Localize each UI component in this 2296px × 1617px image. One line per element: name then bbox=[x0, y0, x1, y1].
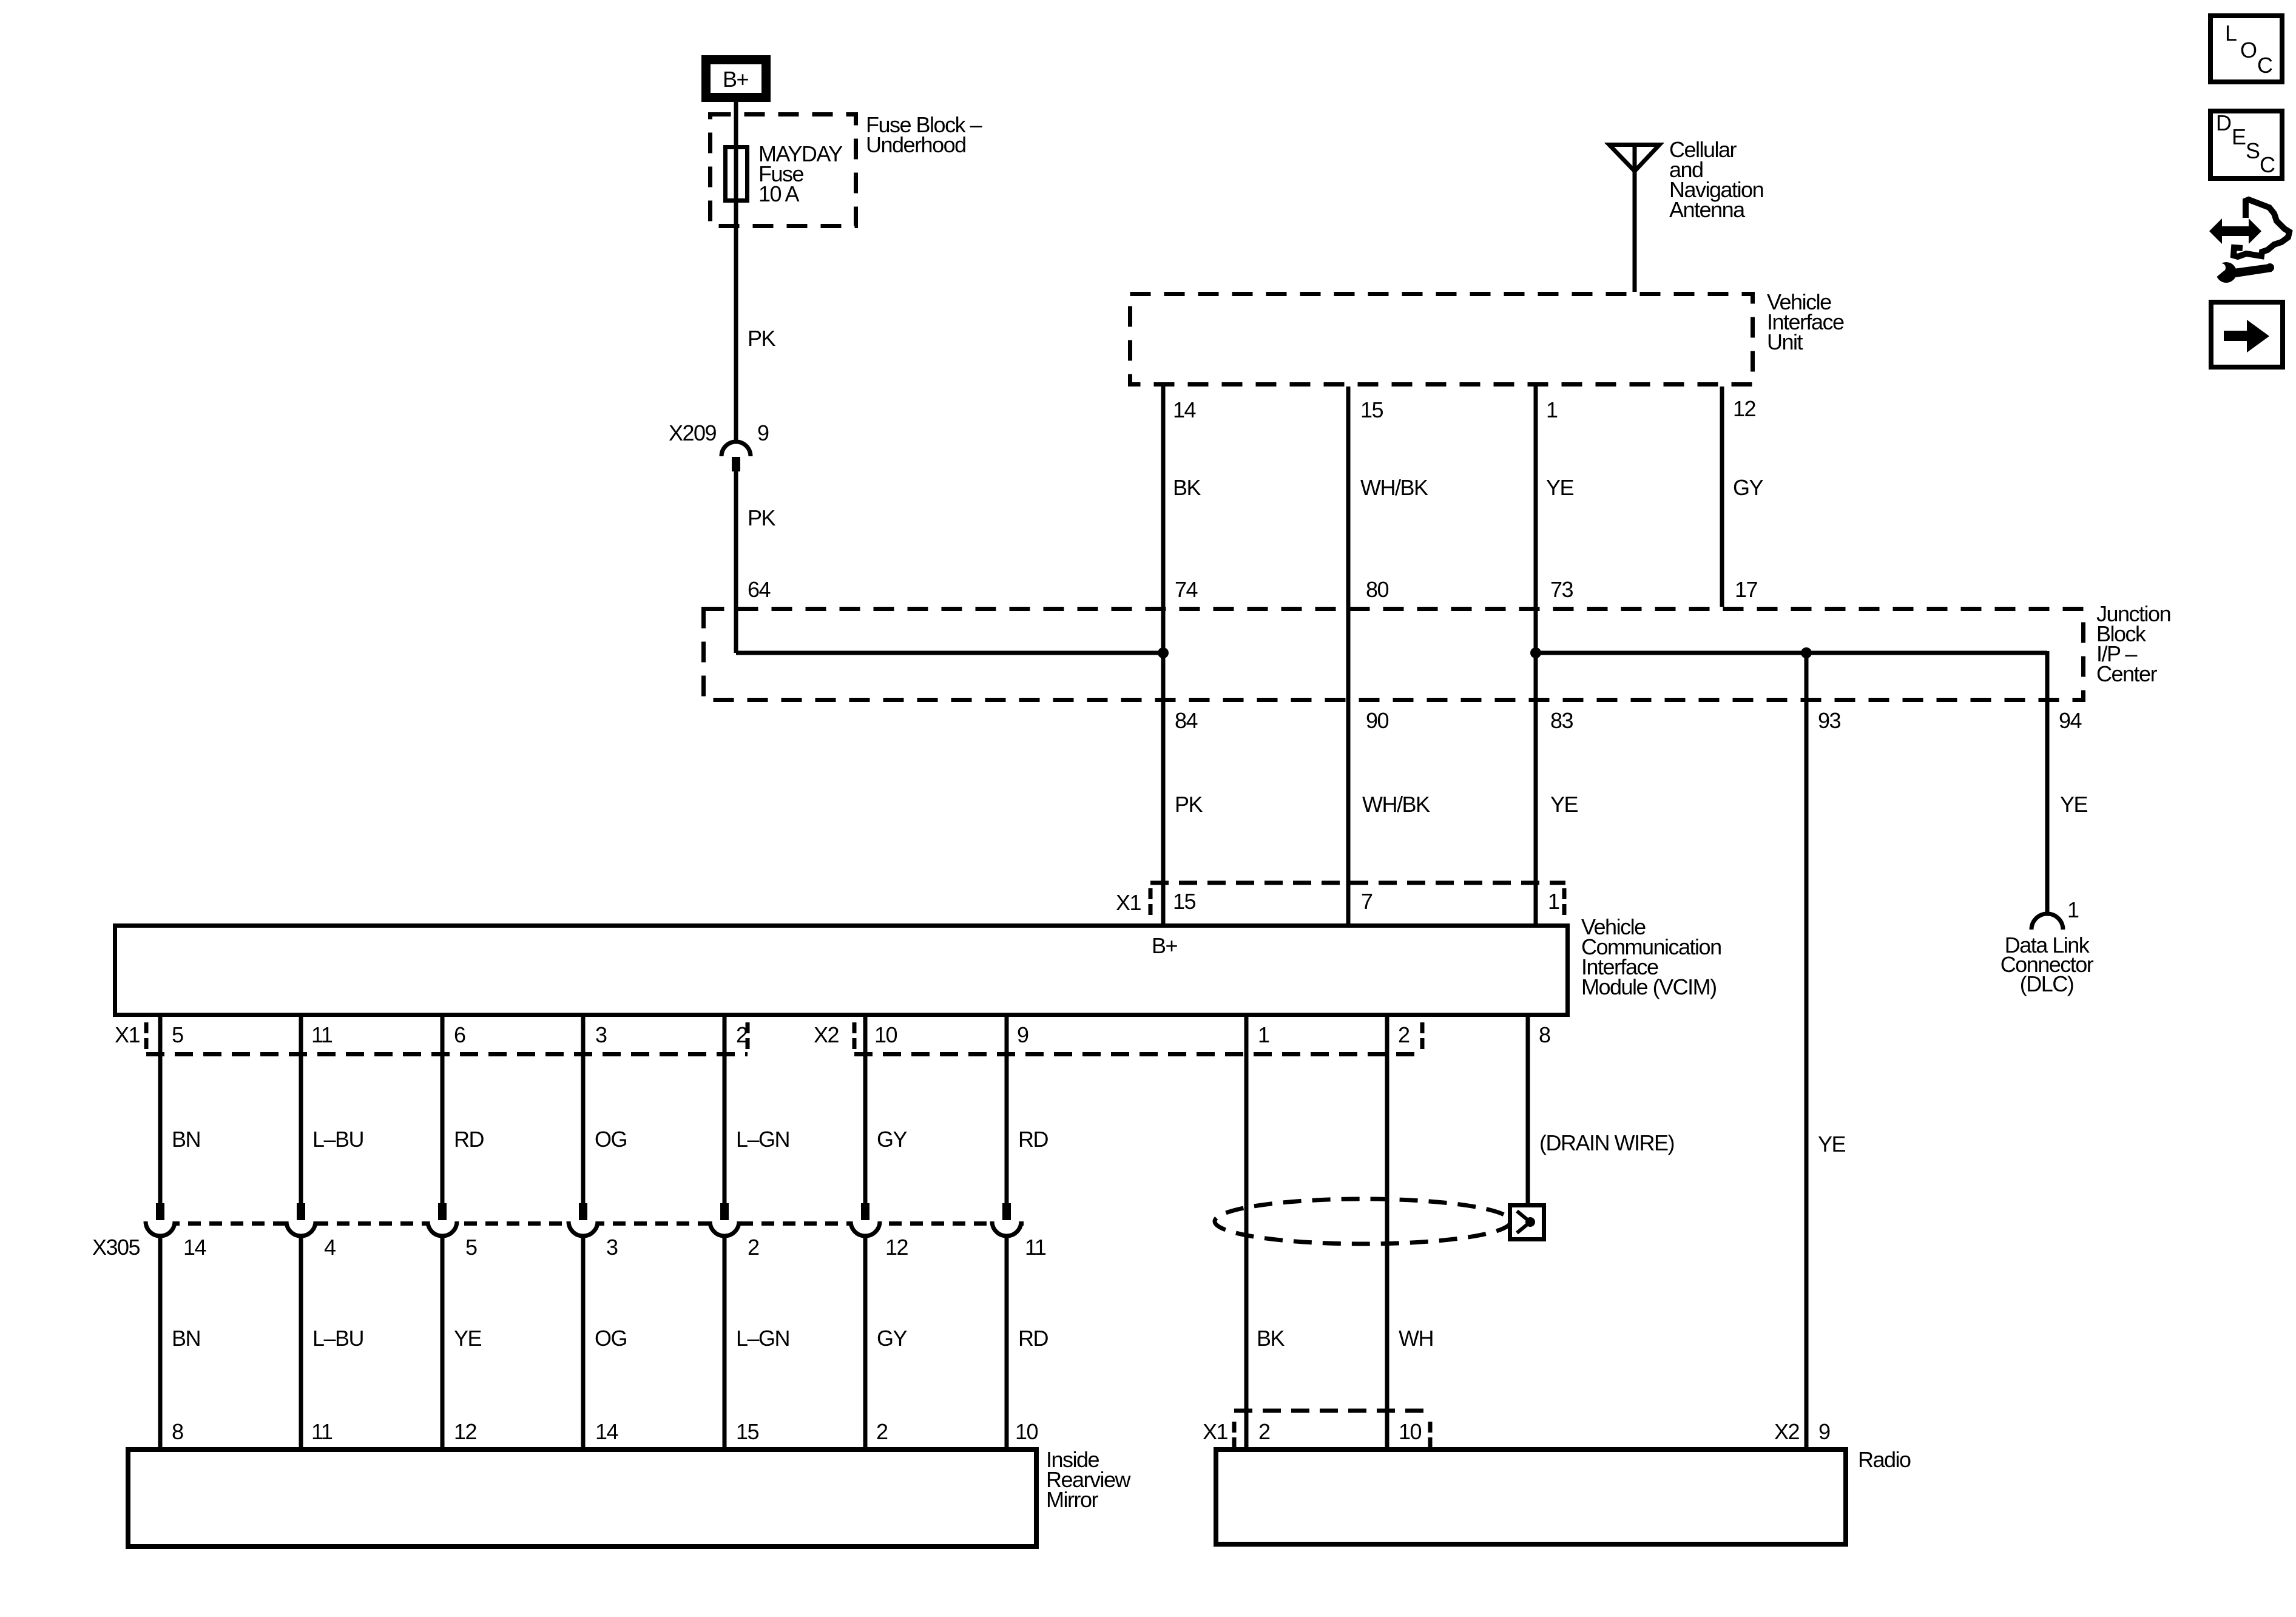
connector X305 plug pin 5 bbox=[438, 1203, 447, 1220]
wire BN from X305 pin 14 to mirror pin 8 bbox=[158, 1235, 163, 1450]
svg-text:94: 94 bbox=[2059, 708, 2082, 733]
svg-text:Center: Center bbox=[2096, 661, 2158, 686]
svg-text:YE: YE bbox=[1550, 792, 1578, 817]
svg-text:15: 15 bbox=[1360, 397, 1383, 422]
wire L–GN from VCIM down to X305 pin 2 bbox=[723, 1017, 727, 1203]
connector X305 socket arc pin 14 bbox=[146, 1221, 175, 1236]
svg-text:X1: X1 bbox=[115, 1022, 140, 1047]
svg-text:2: 2 bbox=[876, 1419, 888, 1444]
cellular and navigation antenna symbol bbox=[1609, 145, 1660, 172]
drain wire termination chevron and dot bbox=[1517, 1211, 1530, 1233]
svg-text:12: 12 bbox=[1733, 396, 1756, 421]
svg-text:11: 11 bbox=[311, 1022, 333, 1047]
svg-text:PK: PK bbox=[1175, 792, 1203, 817]
svg-text:17: 17 bbox=[1735, 577, 1758, 602]
vehicle interface unit U-VIU (dashed box) bbox=[1130, 294, 1753, 385]
svg-text:S: S bbox=[2246, 138, 2260, 163]
connector X305 plug pin 14 bbox=[156, 1203, 164, 1220]
svg-text:X2: X2 bbox=[1774, 1419, 1800, 1444]
wire YE junction pin 94 down to DLC pin 1 bbox=[2045, 651, 2050, 914]
svg-text:X2: X2 bbox=[814, 1022, 839, 1047]
shield (dashed ellipse) around BK/WH wires bbox=[1215, 1199, 1511, 1244]
svg-text:5: 5 bbox=[465, 1235, 477, 1260]
svg-text:93: 93 bbox=[1818, 708, 1841, 733]
icon arrow box bbox=[2211, 302, 2283, 367]
svg-text:1: 1 bbox=[1546, 397, 1558, 422]
wire BN from VCIM down to X305 pin 14 bbox=[158, 1017, 163, 1203]
svg-text:L: L bbox=[2225, 21, 2237, 46]
wire YE from X305 pin 5 to mirror pin 12 bbox=[441, 1235, 445, 1450]
wire RD from X305 pin 11 to mirror pin 10 bbox=[1005, 1235, 1009, 1450]
svg-text:84: 84 bbox=[1175, 708, 1198, 733]
svg-text:1: 1 bbox=[1258, 1022, 1269, 1047]
connector X305 socket arc pin 11 bbox=[992, 1221, 1021, 1236]
wire YE junction pin 93 down to radio X2-9 bbox=[1805, 653, 1809, 1450]
wire L–BU from X305 pin 4 to mirror pin 11 bbox=[299, 1235, 303, 1450]
wire GY from X305 pin 12 to mirror pin 2 bbox=[863, 1235, 868, 1450]
svg-text:15: 15 bbox=[736, 1419, 759, 1444]
svg-text:12: 12 bbox=[885, 1235, 908, 1260]
svg-text:RD: RD bbox=[1018, 1326, 1048, 1351]
svg-text:8: 8 bbox=[1539, 1022, 1550, 1047]
connector X305 plug pin 11 bbox=[1002, 1203, 1011, 1220]
svg-text:Radio: Radio bbox=[1858, 1447, 1911, 1472]
svg-text:2: 2 bbox=[1398, 1022, 1410, 1047]
svg-text:GY: GY bbox=[877, 1127, 908, 1152]
svg-text:74: 74 bbox=[1175, 577, 1198, 602]
svg-text:PK: PK bbox=[748, 505, 776, 530]
svg-text:8: 8 bbox=[172, 1419, 183, 1444]
svg-text:RD: RD bbox=[454, 1127, 484, 1152]
svg-text:Mirror: Mirror bbox=[1046, 1487, 1098, 1512]
svg-text:14: 14 bbox=[595, 1419, 618, 1444]
fuse block - underhood (dashed box) bbox=[711, 115, 856, 226]
wire WH/BK from VIU pin 15 through junction 80/90 to VCIM X1-7 bbox=[1346, 387, 1351, 925]
data link connector DLC socket arc bbox=[2031, 914, 2063, 930]
drain wire termination box bbox=[1510, 1206, 1544, 1240]
svg-text:5: 5 bbox=[172, 1022, 183, 1047]
wire PK from B+ to fuse bbox=[734, 102, 738, 442]
svg-text:4: 4 bbox=[324, 1235, 336, 1260]
svg-text:10: 10 bbox=[1015, 1419, 1038, 1444]
icon LOC box bbox=[2210, 16, 2282, 82]
svg-text:YE: YE bbox=[1818, 1132, 1846, 1156]
wire YE from VIU pin 1 through junction 73/83 to VCIM X1-1 bbox=[1534, 387, 1538, 925]
svg-text:YE: YE bbox=[2060, 792, 2088, 817]
svg-text:10 A: 10 A bbox=[758, 181, 800, 206]
connector X305 plug pin 4 bbox=[297, 1203, 305, 1220]
svg-text:2: 2 bbox=[736, 1022, 748, 1047]
svg-text:80: 80 bbox=[1366, 577, 1389, 602]
connector X305 socket arc pin 4 bbox=[286, 1221, 316, 1236]
vehicle communication interface module U-VCIM (box) bbox=[115, 926, 1568, 1015]
svg-text:1: 1 bbox=[1548, 889, 1559, 914]
svg-text:OG: OG bbox=[595, 1326, 627, 1351]
svg-text:WH/BK: WH/BK bbox=[1362, 792, 1430, 817]
connector X305 socket arc pin 3 bbox=[569, 1221, 598, 1236]
svg-text:GY: GY bbox=[877, 1326, 908, 1351]
connector X305 plug pin 3 bbox=[579, 1203, 587, 1220]
svg-text:B+: B+ bbox=[723, 67, 749, 92]
svg-text:BN: BN bbox=[172, 1326, 200, 1351]
svg-text:2: 2 bbox=[1258, 1419, 1270, 1444]
icon DESC box bbox=[2210, 111, 2282, 178]
svg-text:6: 6 bbox=[454, 1022, 465, 1047]
inside rearview mirror (box) bbox=[128, 1450, 1036, 1547]
svg-text:9: 9 bbox=[757, 420, 769, 445]
svg-text:10: 10 bbox=[874, 1022, 897, 1047]
connector X305 socket arc pin 12 bbox=[851, 1221, 880, 1236]
svg-text:L–BU: L–BU bbox=[312, 1326, 363, 1351]
svg-text:C: C bbox=[2257, 53, 2272, 78]
svg-text:90: 90 bbox=[1366, 708, 1389, 733]
svg-text:L–GN: L–GN bbox=[736, 1326, 789, 1351]
fuse MAYDAY 10 A (symbol) bbox=[726, 147, 748, 201]
svg-text:14: 14 bbox=[183, 1235, 206, 1260]
svg-text:64: 64 bbox=[748, 577, 771, 602]
svg-text:X1: X1 bbox=[1116, 890, 1141, 915]
svg-text:2: 2 bbox=[748, 1235, 759, 1260]
svg-text:X209: X209 bbox=[669, 420, 717, 445]
svg-text:O: O bbox=[2240, 38, 2257, 62]
wire BK from VCIM X2-1 to radio X1-2 bbox=[1244, 1017, 1249, 1450]
svg-text:GY: GY bbox=[1733, 475, 1764, 500]
radio connector X1 dashed line bbox=[1234, 1409, 1430, 1413]
connector X209 plug bbox=[732, 457, 740, 471]
svg-text:Module (VCIM): Module (VCIM) bbox=[1581, 974, 1717, 999]
junction block I/P - center (dashed box) bbox=[704, 609, 2084, 700]
svg-text:BK: BK bbox=[1257, 1326, 1285, 1351]
svg-text:9: 9 bbox=[1017, 1022, 1028, 1047]
svg-text:Antenna: Antenna bbox=[1669, 197, 1746, 222]
svg-text:E: E bbox=[2232, 124, 2246, 149]
svg-text:WH: WH bbox=[1399, 1326, 1433, 1351]
wire PK from X209 to junction block pin 64 bbox=[734, 471, 738, 653]
svg-text:Unit: Unit bbox=[1767, 329, 1803, 354]
junction dot at 93 tap bbox=[1801, 647, 1812, 658]
drain wire from VCIM X2-8 to shield ground bbox=[1526, 1017, 1530, 1205]
svg-text:(DLC): (DLC) bbox=[2020, 971, 2074, 996]
svg-text:BN: BN bbox=[172, 1127, 200, 1152]
svg-text:WH/BK: WH/BK bbox=[1360, 475, 1428, 500]
connector X305 plug pin 12 bbox=[861, 1203, 869, 1220]
connector X305 socket arc pin 5 bbox=[428, 1221, 457, 1236]
svg-text:X305: X305 bbox=[92, 1235, 140, 1260]
svg-text:B+: B+ bbox=[1152, 933, 1178, 958]
junction dot at 73/83 wire bbox=[1530, 647, 1541, 658]
wire GY from VIU pin 12 to junction pin 17 bbox=[1720, 387, 1724, 607]
svg-text:D: D bbox=[2216, 110, 2231, 135]
svg-text:L–GN: L–GN bbox=[736, 1127, 789, 1152]
svg-text:10: 10 bbox=[1399, 1419, 1422, 1444]
svg-text:3: 3 bbox=[595, 1022, 607, 1047]
wire L–GN from X305 pin 2 to mirror pin 15 bbox=[723, 1235, 727, 1450]
icon double arrow with part outline and wrench bbox=[2209, 218, 2261, 244]
svg-text:11: 11 bbox=[1025, 1235, 1046, 1260]
svg-text:BK: BK bbox=[1173, 475, 1201, 500]
connector X305 dashed line bbox=[146, 1221, 1024, 1226]
svg-text:(DRAIN WIRE): (DRAIN WIRE) bbox=[1539, 1130, 1674, 1155]
junction block internal bus wire 83-93-94 bbox=[1536, 651, 2047, 655]
wire OG from VCIM down to X305 pin 3 bbox=[581, 1017, 586, 1203]
svg-text:3: 3 bbox=[606, 1235, 618, 1260]
svg-text:11: 11 bbox=[311, 1419, 333, 1444]
svg-text:7: 7 bbox=[1361, 889, 1373, 914]
svg-text:L–BU: L–BU bbox=[312, 1127, 363, 1152]
wire BK/PK from VIU pin 14 through junction 74/84 to VCIM X1-15 bbox=[1161, 387, 1166, 925]
svg-text:C: C bbox=[2260, 152, 2275, 177]
wire RD from VCIM down to X305 pin 11 bbox=[1005, 1017, 1009, 1203]
svg-text:YE: YE bbox=[454, 1326, 482, 1351]
svg-text:RD: RD bbox=[1018, 1127, 1048, 1152]
wire L–BU from VCIM down to X305 pin 4 bbox=[299, 1017, 303, 1203]
svg-text:14: 14 bbox=[1173, 397, 1196, 422]
svg-text:X1: X1 bbox=[1203, 1419, 1228, 1444]
junction dot at 74/84 wire bbox=[1158, 647, 1169, 658]
radio (box) bbox=[1216, 1450, 1846, 1544]
svg-text:73: 73 bbox=[1550, 577, 1573, 602]
svg-text:Underhood: Underhood bbox=[866, 132, 966, 157]
svg-text:9: 9 bbox=[1818, 1419, 1830, 1444]
svg-text:1: 1 bbox=[2067, 897, 2079, 922]
svg-text:12: 12 bbox=[454, 1419, 477, 1444]
wire GY from VCIM down to X305 pin 12 bbox=[863, 1017, 868, 1203]
svg-text:YE: YE bbox=[1546, 475, 1574, 500]
connector X209 socket arc bbox=[721, 442, 751, 456]
junction block internal bus wire 64-74 bbox=[736, 651, 1164, 655]
svg-text:83: 83 bbox=[1550, 708, 1573, 733]
wire RD from VCIM down to X305 pin 5 bbox=[441, 1017, 445, 1203]
power symbol B+ (battery feed) bbox=[706, 60, 766, 98]
svg-text:15: 15 bbox=[1173, 889, 1196, 914]
connector X305 plug pin 2 bbox=[720, 1203, 729, 1220]
svg-text:PK: PK bbox=[748, 326, 776, 351]
wire WH from VCIM X2-2 to radio X1-10 bbox=[1385, 1017, 1389, 1450]
svg-text:OG: OG bbox=[595, 1127, 627, 1152]
connector X1 (VCIM top) dashed line bbox=[1150, 881, 1565, 885]
connector X305 socket arc pin 2 bbox=[710, 1221, 739, 1236]
wire OG from X305 pin 3 to mirror pin 14 bbox=[581, 1235, 586, 1450]
